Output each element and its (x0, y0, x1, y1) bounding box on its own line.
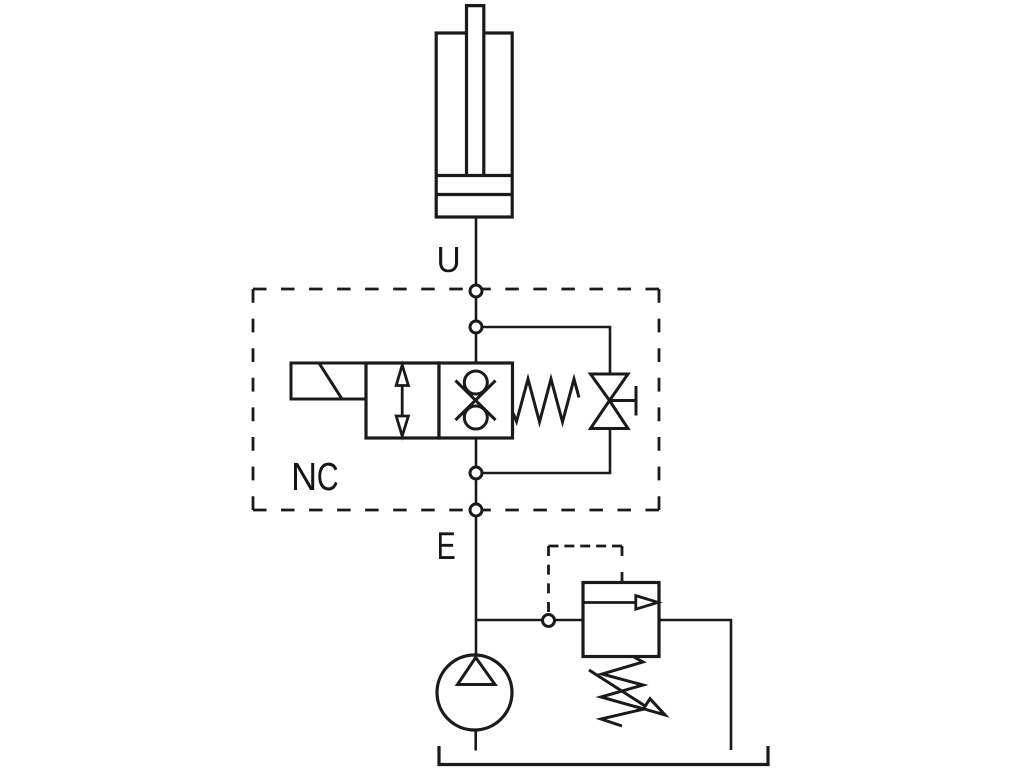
wire: branch to throttle (upper) (476, 327, 610, 375)
relief valve spring (adjustable) (601, 657, 644, 726)
node: junction on enclosure top edge (470, 285, 482, 297)
valve body right square (439, 363, 513, 438)
node: junction to throttle branch (470, 321, 482, 333)
valve actuator double arrow (396, 365, 408, 436)
enclosure NC dashed box (253, 289, 659, 510)
relief valve adjustment arrow (589, 670, 665, 715)
wire: main vertical line cylinder to pump (475, 216, 478, 656)
wire: pump line to relief valve (476, 619, 583, 622)
wire: pump outlet to tank (474, 730, 477, 751)
cylinder rod (467, 6, 484, 176)
solenoid coil (291, 363, 366, 399)
valve return spring (513, 379, 579, 422)
throttle valve (591, 374, 637, 429)
valve body left square (366, 363, 439, 438)
node: pilot tap on pump line (543, 615, 555, 627)
wire: relief valve to tank (659, 620, 731, 750)
cylinder body (436, 33, 512, 217)
relief valve flow arrow (583, 596, 658, 610)
pump P (437, 655, 512, 730)
label NC (294, 463, 338, 491)
port label E (439, 532, 455, 559)
cylinder piston (436, 176, 512, 195)
port label U (439, 247, 458, 272)
node: junction on enclosure bottom edge (470, 504, 482, 516)
node: junction below valve (470, 467, 482, 479)
wire: throttle to lower node (476, 428, 610, 473)
tank (439, 746, 768, 765)
relief valve body (583, 583, 659, 657)
pilot line (dashed) to relief valve (549, 546, 623, 612)
check/shut-off symbol (two seated balls crossed) (456, 371, 496, 429)
